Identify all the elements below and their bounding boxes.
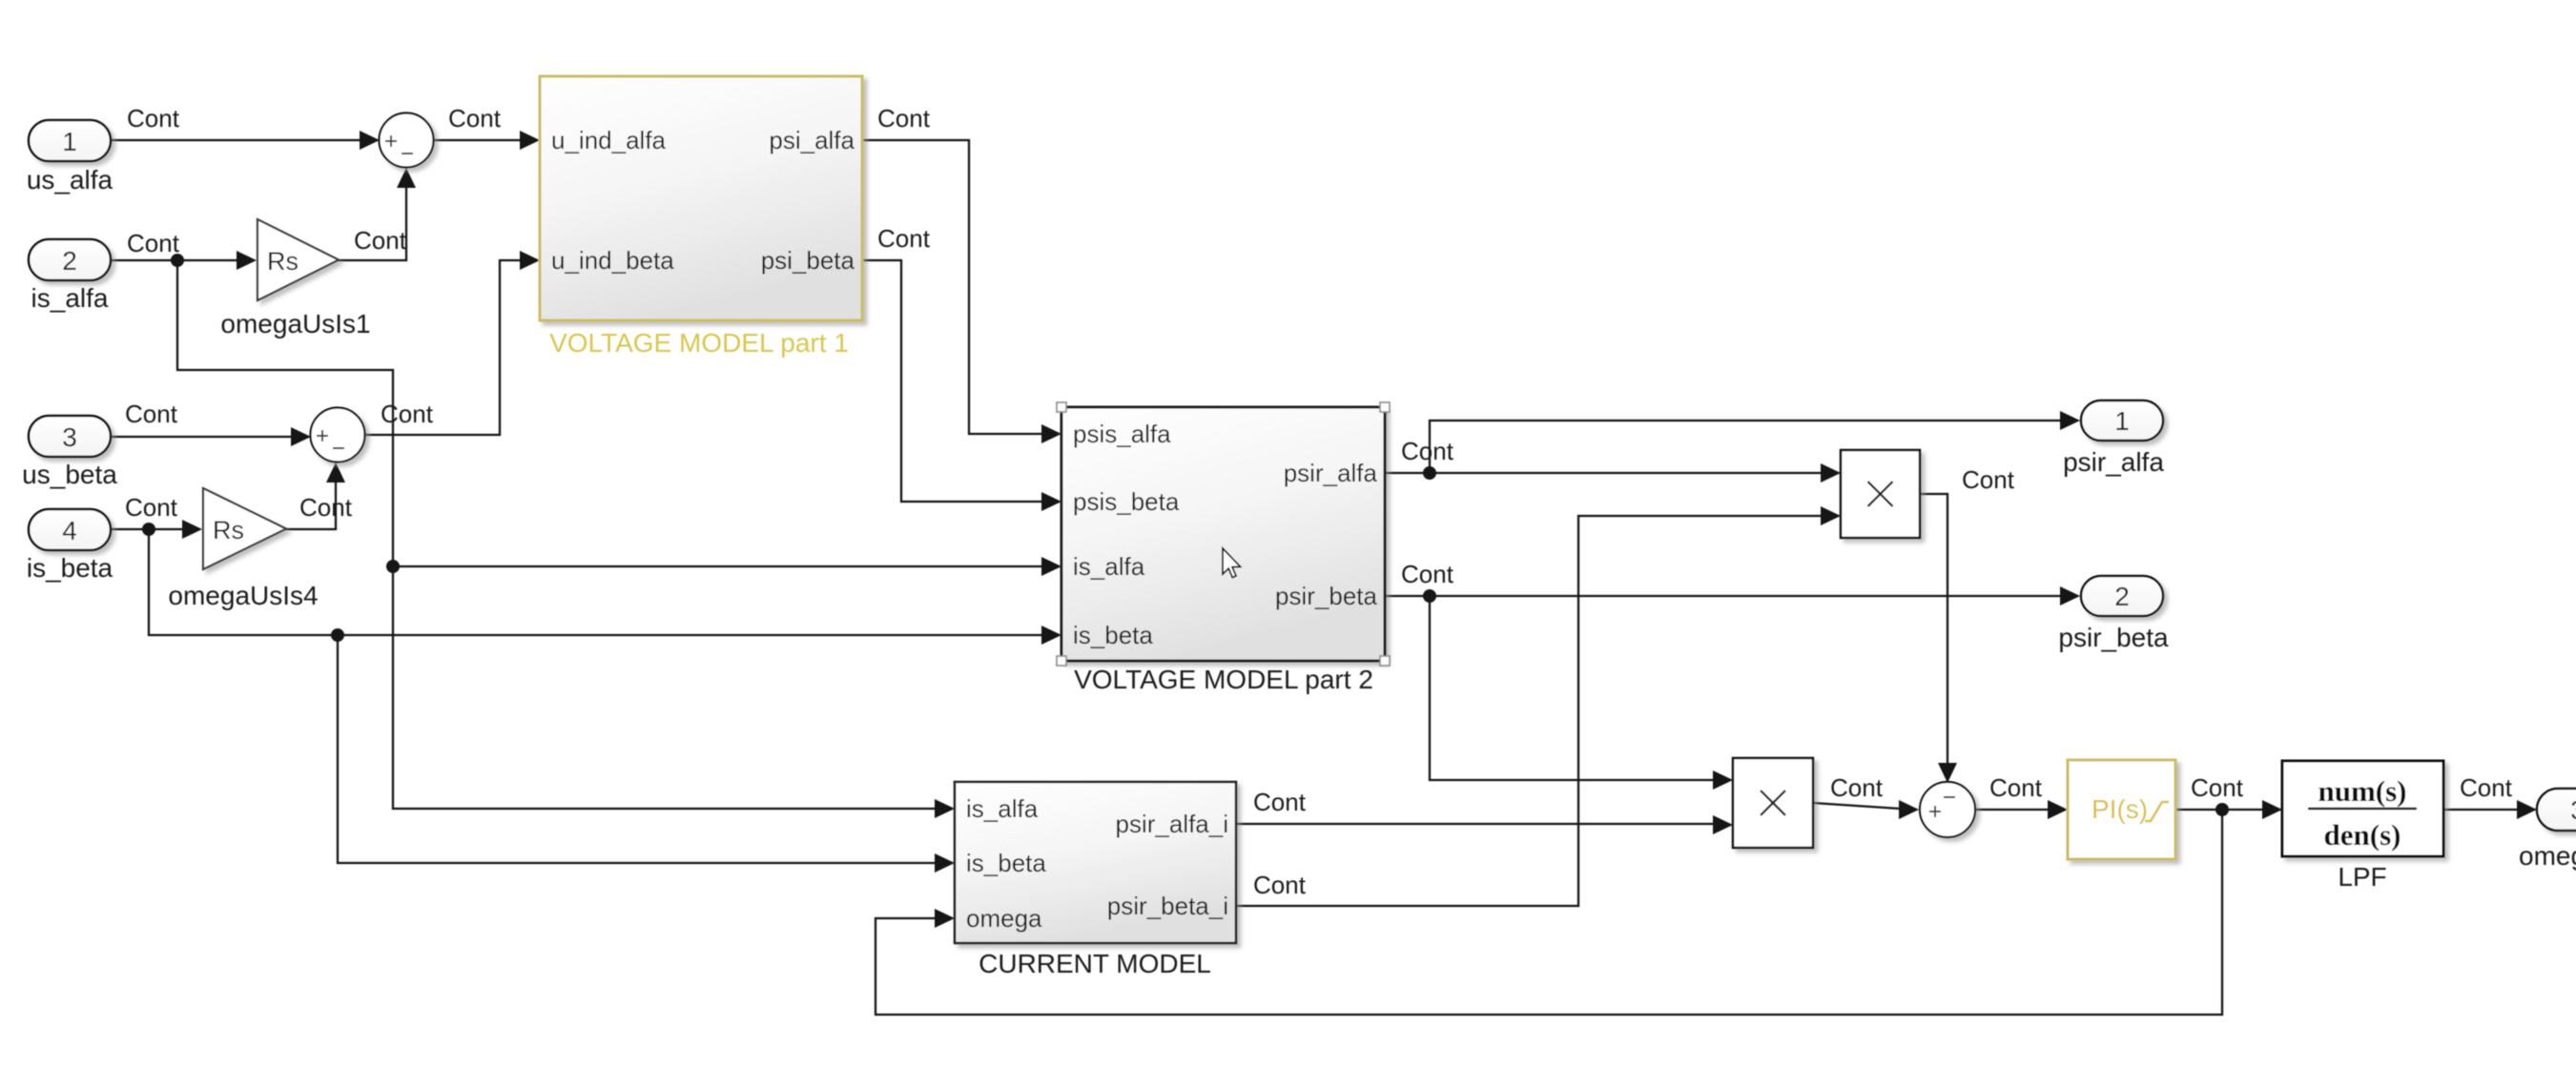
svg-text:Cont: Cont <box>1989 773 2043 802</box>
svg-text:is_alfa: is_alfa <box>966 794 1039 823</box>
svg-text:Cont: Cont <box>2460 773 2513 802</box>
svg-text:psir_beta: psir_beta <box>2058 623 2169 652</box>
svg-text:1: 1 <box>2114 406 2130 436</box>
svg-text:omega: omega <box>966 904 1042 933</box>
svg-text:Cont: Cont <box>1401 437 1454 465</box>
svg-text:is_beta: is_beta <box>966 849 1046 877</box>
svg-text:Cont: Cont <box>2191 773 2244 802</box>
svg-text:Cont: Cont <box>381 400 434 428</box>
svg-text:psir_alfa: psir_alfa <box>1284 459 1378 487</box>
svg-text:VOLTAGE MODEL part 1: VOLTAGE MODEL part 1 <box>549 328 849 358</box>
svg-text:1: 1 <box>62 127 77 156</box>
svg-text:Cont: Cont <box>354 226 407 255</box>
svg-text:den(s): den(s) <box>2324 818 2401 852</box>
svg-text:is_alfa: is_alfa <box>31 283 109 313</box>
svg-text:u_ind_beta: u_ind_beta <box>551 246 674 275</box>
svg-text:omegaUsIs1: omegaUsIs1 <box>220 309 370 339</box>
svg-text:Cont: Cont <box>125 493 178 522</box>
svg-text:psir_beta: psir_beta <box>1275 582 1377 610</box>
svg-text:omega: omega <box>2519 841 2576 871</box>
svg-text:num(s): num(s) <box>2318 774 2406 808</box>
svg-text:Cont: Cont <box>125 400 178 428</box>
svg-text:us_beta: us_beta <box>22 460 117 489</box>
svg-text:Cont: Cont <box>1253 871 1307 899</box>
svg-text:Cont: Cont <box>1962 465 2015 494</box>
svg-text:Cont: Cont <box>127 104 180 133</box>
svg-text:psis_alfa: psis_alfa <box>1073 420 1171 448</box>
svg-text:Rs: Rs <box>267 247 299 276</box>
svg-text:psi_beta: psi_beta <box>761 246 855 275</box>
svg-text:psi_alfa: psi_alfa <box>769 126 855 154</box>
svg-text:3: 3 <box>2570 795 2576 825</box>
svg-text:psir_alfa_i: psir_alfa_i <box>1115 810 1228 838</box>
svg-text:Cont: Cont <box>1830 773 1884 802</box>
svg-text:psir_beta_i: psir_beta_i <box>1107 892 1228 920</box>
svg-text:is_beta: is_beta <box>1073 621 1153 649</box>
svg-text:CURRENT MODEL: CURRENT MODEL <box>979 949 1211 978</box>
svg-text:Cont: Cont <box>1401 560 1454 588</box>
svg-text:Rs: Rs <box>213 516 244 544</box>
svg-text:2: 2 <box>62 246 77 276</box>
svg-text:us_alfa: us_alfa <box>27 165 113 195</box>
svg-text:is_beta: is_beta <box>27 553 113 583</box>
svg-text:Cont: Cont <box>877 104 931 133</box>
svg-text:Cont: Cont <box>1253 788 1307 816</box>
svg-text:is_alfa: is_alfa <box>1073 552 1145 581</box>
svg-text:2: 2 <box>2114 582 2130 611</box>
svg-text:LPF: LPF <box>2338 862 2386 892</box>
svg-text:psir_alfa: psir_alfa <box>2063 447 2164 477</box>
svg-text:Cont: Cont <box>877 224 931 253</box>
svg-text:VOLTAGE MODEL part 2: VOLTAGE MODEL part 2 <box>1074 665 1373 694</box>
svg-text:omegaUsIs4: omegaUsIs4 <box>168 581 318 610</box>
svg-text:4: 4 <box>62 516 77 545</box>
svg-text:u_ind_alfa: u_ind_alfa <box>551 126 667 154</box>
svg-text:PI(s): PI(s) <box>2092 794 2148 824</box>
svg-text:Cont: Cont <box>127 229 180 257</box>
svg-text:psis_beta: psis_beta <box>1073 487 1180 516</box>
svg-text:3: 3 <box>62 422 77 452</box>
svg-text:Cont: Cont <box>448 104 502 133</box>
svg-text:Cont: Cont <box>299 493 353 522</box>
